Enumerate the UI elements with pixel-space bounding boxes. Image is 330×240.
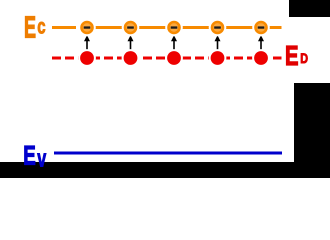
svg-text:c: c [37, 16, 46, 39]
svg-text:v: v [37, 146, 46, 173]
svg-text:D: D [300, 51, 308, 66]
svg-text:E: E [285, 40, 299, 71]
svg-text:E: E [23, 141, 36, 171]
svg-text:E: E [24, 10, 36, 45]
